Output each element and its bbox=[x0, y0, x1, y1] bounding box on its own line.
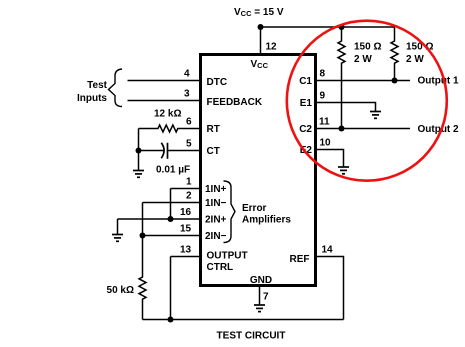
op-amp U1 (TL494 IC body) bbox=[201, 55, 316, 286]
wire pin1 drop to 2IN+ line bbox=[170, 189, 172, 220]
svg-text:CT: CT bbox=[207, 146, 220, 157]
svg-text:1: 1 bbox=[186, 177, 192, 188]
svg-text:6: 6 bbox=[186, 117, 192, 128]
resistor R2 150 ohm (right) bbox=[391, 27, 398, 81]
svg-text:REF: REF bbox=[290, 254, 310, 265]
node CT junction bbox=[136, 148, 142, 154]
svg-text:VCC: VCC bbox=[251, 59, 269, 70]
wire pin13 drop to bottom rail bbox=[170, 257, 172, 320]
wire pin 10 E2 bbox=[316, 150, 344, 167]
svg-text:Amplifiers: Amplifiers bbox=[242, 214, 291, 225]
svg-text:7: 7 bbox=[263, 292, 269, 303]
wire pin 1 1IN+ bbox=[171, 188, 201, 190]
wire pin 14 REF to bottom rail bbox=[316, 257, 344, 320]
svg-text:Output 1: Output 1 bbox=[418, 76, 460, 87]
ground (pin 7) bbox=[254, 305, 265, 312]
svg-text:RT: RT bbox=[207, 124, 220, 135]
svg-text:OUTPUT: OUTPUT bbox=[207, 251, 248, 262]
svg-text:13: 13 bbox=[180, 245, 192, 256]
svg-text:2 W: 2 W bbox=[354, 54, 372, 65]
capacitor C3 0.01 uF bbox=[139, 150, 165, 152]
annotation red ellipse highlight bbox=[287, 21, 447, 181]
svg-text:2IN+: 2IN+ bbox=[205, 215, 227, 226]
svg-text:1IN−: 1IN− bbox=[205, 198, 227, 209]
svg-text:16: 16 bbox=[180, 207, 192, 218]
svg-text:2: 2 bbox=[186, 191, 192, 202]
wire pin 3 FEEDBACK bbox=[128, 100, 201, 102]
svg-text:9: 9 bbox=[320, 91, 326, 102]
wire Vcc vertical to pin 12 bbox=[260, 27, 262, 54]
wire pin 11 C2 to Output 2 bbox=[316, 128, 410, 130]
node pin2/pin15 junction bbox=[140, 233, 146, 239]
ground (CT) bbox=[133, 171, 144, 178]
svg-text:10: 10 bbox=[320, 138, 332, 149]
svg-text:Test: Test bbox=[87, 80, 107, 91]
node rail-R1 junction bbox=[339, 24, 345, 30]
wire pin 4 DTC bbox=[128, 80, 201, 82]
ground (E1) bbox=[370, 112, 381, 119]
node pin1/pin16 junction bbox=[168, 216, 174, 222]
svg-text:FEEDBACK: FEEDBACK bbox=[207, 97, 263, 108]
wire pin 2 1IN- bbox=[143, 202, 201, 204]
svg-text:12 kΩ: 12 kΩ bbox=[154, 109, 181, 120]
svg-text:14: 14 bbox=[322, 245, 334, 256]
svg-text:150 Ω: 150 Ω bbox=[354, 42, 381, 53]
svg-text:CTRL: CTRL bbox=[207, 262, 234, 273]
node pin13/bottom rail junction bbox=[168, 317, 174, 323]
svg-text:15: 15 bbox=[180, 224, 192, 235]
resistor R3 12 kohm bbox=[139, 125, 201, 132]
brace error amplifiers bbox=[224, 181, 236, 243]
svg-text:Output 2: Output 2 bbox=[418, 124, 460, 135]
svg-text:E1: E1 bbox=[300, 98, 313, 109]
svg-text:5: 5 bbox=[186, 139, 192, 150]
wire pin 15 2IN- bbox=[143, 235, 201, 237]
svg-text:50 kΩ: 50 kΩ bbox=[107, 285, 134, 296]
node R2-C1 junction bbox=[392, 78, 398, 84]
wire R3 left drop bbox=[138, 129, 140, 151]
node Vcc junction bbox=[258, 24, 264, 30]
resistor R1 150 ohm (left) bbox=[338, 27, 345, 129]
svg-text:1IN+: 1IN+ bbox=[205, 184, 227, 195]
wire pin 9 E1 bbox=[316, 103, 376, 112]
wire bottom rail bbox=[143, 319, 344, 321]
wire pin 7 GND bbox=[259, 287, 261, 305]
svg-text:DTC: DTC bbox=[207, 77, 228, 88]
svg-text:VCC = 15 V: VCC = 15 V bbox=[234, 7, 284, 18]
wire pin 13 OUTPUT CTRL bbox=[171, 256, 201, 258]
node R1-C2 junction bbox=[339, 126, 345, 132]
svg-text:Inputs: Inputs bbox=[77, 93, 107, 104]
svg-text:C2: C2 bbox=[299, 124, 312, 135]
svg-text:C1: C1 bbox=[299, 76, 312, 87]
wire pin2 drop to 2IN- line bbox=[142, 203, 144, 236]
svg-text:TEST CIRCUIT: TEST CIRCUIT bbox=[217, 331, 286, 342]
svg-text:2 W: 2 W bbox=[406, 54, 424, 65]
wire pin 8 C1 to Output 1 bbox=[316, 80, 410, 82]
svg-text:GND: GND bbox=[250, 275, 272, 286]
svg-text:12: 12 bbox=[266, 42, 278, 53]
svg-text:3: 3 bbox=[184, 89, 190, 100]
resistor R4 50 kohm bbox=[139, 236, 146, 320]
brace test inputs bbox=[109, 69, 123, 107]
wire pin 16 2IN+ bbox=[118, 218, 201, 220]
wire CT junction to ground bbox=[138, 151, 140, 171]
svg-text:11: 11 bbox=[319, 117, 330, 128]
svg-text:4: 4 bbox=[184, 69, 190, 80]
svg-text:8: 8 bbox=[320, 69, 326, 80]
ground (2IN+) bbox=[112, 235, 123, 242]
svg-text:2IN−: 2IN− bbox=[205, 231, 227, 242]
svg-text:0.01 µF: 0.01 µF bbox=[156, 165, 190, 176]
svg-text:Error: Error bbox=[242, 203, 267, 214]
ground (E2) bbox=[338, 167, 349, 174]
wire Vcc rail bbox=[261, 26, 395, 28]
wire 2IN+ to ground bbox=[117, 219, 119, 234]
